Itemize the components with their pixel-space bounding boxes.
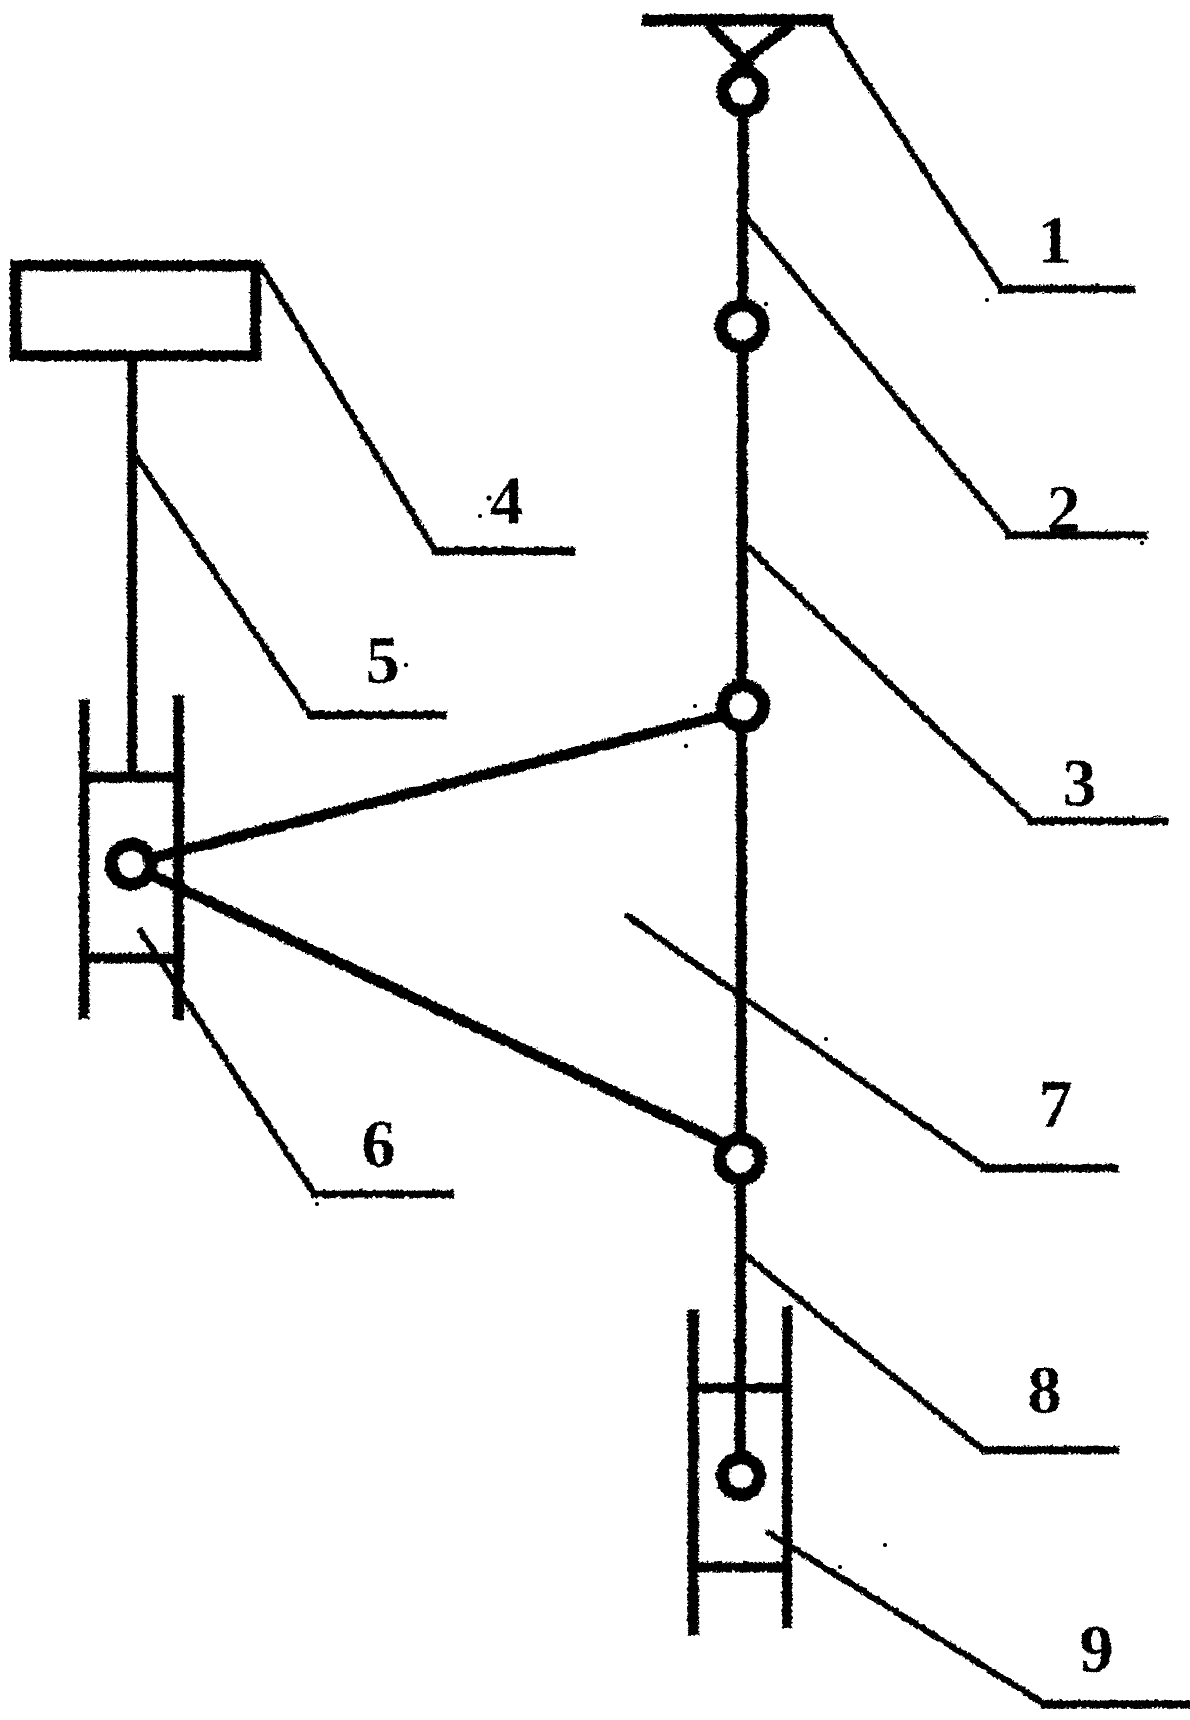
leader line 1 underline bbox=[997, 284, 1134, 292]
leader line 6 diagonal bbox=[138, 928, 312, 1191]
svg-text:3: 3 bbox=[1062, 744, 1096, 820]
pin joint 3 (middle) bbox=[722, 685, 763, 726]
svg-text:4: 4 bbox=[489, 462, 523, 538]
left guide rail inner bbox=[172, 694, 183, 1019]
bottom slider pin joint (9) bbox=[722, 1457, 759, 1494]
support brace left leg bbox=[707, 23, 750, 66]
counterweight rectangle (4) bbox=[15, 265, 255, 355]
leader line 4 underline bbox=[430, 546, 574, 554]
left slider box top edge bbox=[78, 771, 183, 782]
svg-text:5: 5 bbox=[365, 621, 399, 697]
fixed support bar (top ground) bbox=[641, 13, 833, 25]
pin joint 1 (top hinge) bbox=[722, 70, 762, 110]
leader line 5 underline bbox=[305, 710, 446, 718]
leader line 4 diagonal bbox=[258, 262, 433, 548]
leader line 7 underline bbox=[979, 1163, 1118, 1171]
leader line 3 underline bbox=[1026, 816, 1167, 824]
bottom guide rail left bbox=[687, 1308, 698, 1634]
left guide rail outer bbox=[78, 698, 88, 1018]
pin joint 4 (lower) bbox=[719, 1138, 760, 1179]
svg-text:9: 9 bbox=[1079, 1610, 1113, 1686]
bottom slider box top edge bbox=[687, 1382, 791, 1392]
svg-text:7: 7 bbox=[1038, 1065, 1072, 1141]
leader line 5 diagonal bbox=[135, 455, 308, 712]
leader line 2 underline bbox=[1004, 530, 1147, 538]
pin joint 2 bbox=[720, 304, 762, 346]
leader line 8 underline bbox=[980, 1445, 1118, 1453]
link upper (left slider to middle joint) bbox=[130, 711, 735, 862]
svg-text:2: 2 bbox=[1046, 470, 1080, 546]
link lower (left slider to lower joint) bbox=[130, 864, 731, 1146]
leader line 1 diagonal bbox=[826, 21, 1000, 287]
leader line 7 diagonal bbox=[624, 913, 982, 1165]
main vertical rod (long link 7) bbox=[739, 92, 742, 1460]
leader line 2 diagonal bbox=[745, 216, 1007, 531]
leader line 9 underline bbox=[1039, 1699, 1190, 1707]
left slider box bottom edge bbox=[78, 952, 183, 962]
bottom slider box bottom edge bbox=[687, 1561, 791, 1571]
support brace right leg bbox=[732, 23, 791, 68]
leader line 6 underline bbox=[309, 1189, 453, 1197]
left slider pin joint (6) bbox=[110, 843, 150, 883]
bottom guide rail right bbox=[781, 1305, 791, 1627]
svg-text:8: 8 bbox=[1027, 1351, 1061, 1427]
leader line 8 diagonal bbox=[742, 1252, 983, 1450]
svg-text:6: 6 bbox=[361, 1105, 395, 1181]
left rod (5) from rectangle to slider bbox=[126, 358, 136, 778]
svg-text:1: 1 bbox=[1037, 201, 1071, 277]
leader line 3 diagonal bbox=[746, 545, 1029, 818]
leader line 9 diagonal bbox=[765, 1530, 1042, 1702]
